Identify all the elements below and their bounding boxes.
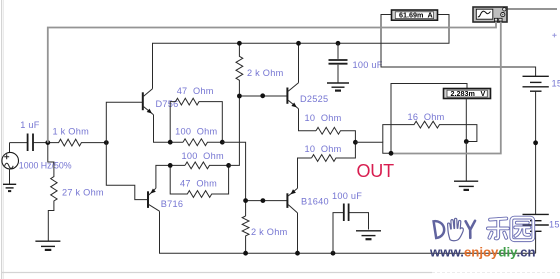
wire: pair1 to B1640 base column <box>222 142 245 216</box>
svg-text:10 Ohm: 10 Ohm <box>305 113 342 123</box>
wire: OUT to load <box>355 142 391 153</box>
svg-text:16 Ohm: 16 Ohm <box>408 112 445 122</box>
wire: D2525 emitter to 10 Ohm <box>299 109 317 131</box>
battery V3 15V (lower) <box>523 214 549 253</box>
resistor R1 1 kOhm <box>48 139 107 146</box>
junction rail/D2525 <box>296 41 301 46</box>
junction voltmeter/load/ground <box>464 139 469 144</box>
resistor R11 16 Ohm (load) <box>383 121 477 142</box>
junction rail/100uF <box>336 41 341 46</box>
watermark hand glyph <box>448 218 464 240</box>
svg-text:1000 Hz/50%: 1000 Hz/50% <box>19 161 72 171</box>
svg-text:B1640: B1640 <box>301 197 329 207</box>
AC source V1 <box>2 143 19 184</box>
svg-text:1 k Ohm: 1 k Ohm <box>53 127 90 137</box>
svg-text:V: V <box>481 89 486 98</box>
junction at 2k/base <box>237 94 242 99</box>
junction -rail/B1640 <box>295 251 300 256</box>
wire: D2525 collector to +rail <box>298 43 300 82</box>
svg-text:OUT: OUT <box>357 161 395 181</box>
transistor Q2 B716 (PNP driver) <box>148 188 160 211</box>
wire: B716 emitter to pair2 rail <box>156 165 185 188</box>
svg-text:www.enjoydiy.cn: www.enjoydiy.cn <box>429 245 536 260</box>
svg-text:2 k Ohm: 2 k Ohm <box>247 68 284 78</box>
capacitor C1 1 uF <box>10 134 48 152</box>
junction pair1 right <box>220 140 225 145</box>
svg-text:A: A <box>428 10 433 19</box>
junction pair1 left <box>168 140 173 145</box>
node: OUT measure junction <box>389 151 394 156</box>
node: base junction <box>104 140 109 145</box>
connector dot on B1640 base <box>261 198 266 203</box>
node: input junction <box>45 140 50 145</box>
wire: scope probe B (gray) to OUT node <box>391 22 501 154</box>
watermark Chinese characters (le yuan) <box>488 218 533 241</box>
resistor R4 47 Ohm (pair1 upper) <box>170 98 222 142</box>
resistor R6 47 Ohm (pair2 lower) <box>170 165 228 197</box>
ground (bottom 100uF) <box>356 231 381 239</box>
battery V2 15V (upper) <box>523 76 549 214</box>
wire: scope probe A (gray) to input node <box>48 22 496 143</box>
oscilloscope XSC1 <box>473 7 507 22</box>
svg-text:15 V: 15 V <box>552 79 560 89</box>
resistor R10 10 Ohm (lower) <box>312 142 356 161</box>
ground (output) <box>454 181 478 190</box>
capacitor C3 100 uF (bottom rail decoupling) <box>333 204 369 254</box>
svg-text:2 k Ohm: 2 k Ohm <box>251 227 288 237</box>
wire: input column to transistor bases <box>106 102 147 199</box>
transistor Q4 B1640 (PNP output) <box>287 188 297 213</box>
connector dot on D2525 base <box>260 93 265 98</box>
resistor R7 2 kOhm (lower bias) <box>242 216 249 253</box>
resistor R2 27 kOhm <box>48 143 57 241</box>
resistor R5 100 Ohm (pair2 upper) <box>185 162 229 169</box>
svg-text:100 uF: 100 uF <box>332 191 362 201</box>
node OUT <box>353 140 358 145</box>
wire: D756 collector to +rail and rail to ammeter <box>153 15 450 89</box>
wire: B1640 collector to -rail <box>297 213 299 253</box>
svg-text:D756: D756 <box>156 99 179 109</box>
wire: B1640 base <box>246 200 287 202</box>
ground (source) <box>3 184 16 191</box>
wire: D2525 base <box>239 95 286 97</box>
wire: D756 emitter to pair1 rail <box>154 115 184 142</box>
wire: B716 collector to -rail, bottom rail <box>160 211 536 253</box>
wire: to ground <box>465 142 467 182</box>
ground (top 100uF) <box>327 83 349 91</box>
wire: scope terminal to right edge <box>507 8 557 10</box>
resistor R3 100 Ohm (pair1 lower) <box>183 139 222 146</box>
ammeter M1 <box>381 10 536 76</box>
junction pair2 left <box>168 163 173 168</box>
junction rail/2k <box>237 41 242 46</box>
svg-text:27 k Ohm: 27 k Ohm <box>62 187 104 197</box>
capacitor C2 100 uF (top rail decoupling) <box>329 43 348 83</box>
svg-text:B716: B716 <box>161 199 183 209</box>
svg-text:47 Ohm: 47 Ohm <box>177 86 214 96</box>
junction -rail/2k <box>243 251 248 256</box>
transistor Q1 D756 (NPN driver) <box>143 89 154 115</box>
wire: pair2 to D2525 base column <box>229 96 240 165</box>
junction pair2 right <box>226 163 231 168</box>
resistor R8 2 kOhm (upper bias) <box>236 43 243 96</box>
resistor R9 10 Ohm (upper) <box>316 127 355 142</box>
svg-text:100 Ohm: 100 Ohm <box>182 151 224 161</box>
svg-text:1 uF: 1 uF <box>20 120 40 130</box>
svg-text:2.283m: 2.283m <box>451 89 475 98</box>
svg-text:10 Ohm: 10 Ohm <box>305 144 342 154</box>
svg-text:100 Ohm: 100 Ohm <box>175 127 217 137</box>
svg-text:D2525: D2525 <box>300 94 328 104</box>
voltmeter M2 <box>391 84 491 154</box>
svg-text:15 V: 15 V <box>549 220 560 230</box>
transistor Q3 D2525 (NPN output) <box>287 83 298 109</box>
svg-text:100 uF: 100 uF <box>353 60 383 70</box>
ground (27 kOhm) <box>35 241 60 250</box>
junction at 2k/base lower <box>243 198 248 203</box>
junction -rail/100uF <box>331 251 336 256</box>
label: + (supply polarity) <box>552 33 556 37</box>
wire: B1640 emitter to 10 Ohm <box>298 158 312 188</box>
svg-text:61.69m: 61.69m <box>399 10 423 19</box>
svg-text:47 Ohm: 47 Ohm <box>180 178 217 188</box>
watermark DIY logo <box>434 221 475 238</box>
connector dot battery column <box>533 140 538 145</box>
